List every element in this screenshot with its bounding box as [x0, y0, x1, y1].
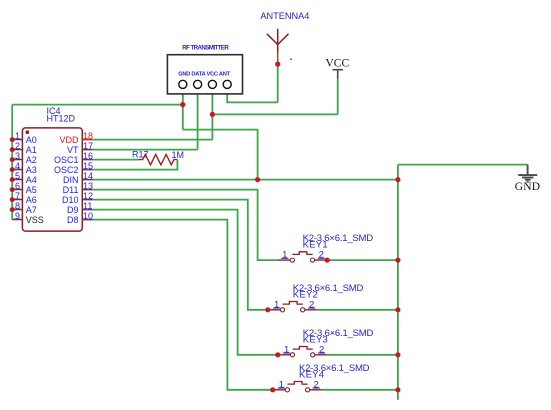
- IC left pin numbers: [15, 131, 20, 221]
- key KEY4: [270, 363, 370, 393]
- wire KEY1 out: [327, 259, 398, 261]
- IC4 HT12D chip box: [22, 128, 82, 231]
- svg-text:VDD: VDD: [59, 135, 79, 145]
- svg-text:3: 3: [15, 151, 20, 161]
- left pin number underlines: [13, 138, 20, 219]
- svg-text:11: 11: [83, 201, 92, 211]
- wire D9 row11 to KEY3: [92, 210, 277, 355]
- svg-text:OSC2: OSC2: [54, 165, 79, 175]
- junction DIN bend: [255, 177, 260, 182]
- key KEY2: [265, 283, 363, 313]
- junction antenna: [275, 62, 280, 67]
- svg-text:A5: A5: [26, 185, 37, 195]
- wire VCC pin drop: [211, 89, 213, 140]
- wire DIN row14 to ground rail: [92, 179, 398, 181]
- svg-text:9: 9: [15, 211, 20, 221]
- svg-text:7: 7: [15, 191, 20, 201]
- VCC symbol: [333, 70, 344, 80]
- wire KEY2 out: [318, 309, 398, 311]
- right pin number underlines tint: [83, 149, 92, 220]
- svg-text:1: 1: [279, 379, 284, 390]
- IC right pin names: [54, 135, 79, 225]
- wire KEY4 out: [322, 389, 398, 391]
- svg-text:VSS: VSS: [26, 215, 44, 225]
- svg-text:1M: 1M: [172, 150, 185, 160]
- wire OSC1 row16: [92, 159, 138, 161]
- RF pin circle DATA: [194, 80, 202, 88]
- RF pin circle VCC: [208, 80, 216, 88]
- svg-text:OSC1: OSC1: [54, 155, 79, 165]
- wire right ground rail: [397, 165, 399, 400]
- wire GND symbol branch: [398, 164, 528, 166]
- wire GND run to DIN: [183, 130, 258, 180]
- svg-text:RF TRANSMITTER: RF TRANSMITTER: [182, 45, 229, 52]
- junction dots left rail pins 1-8: [10, 137, 15, 212]
- svg-text:2: 2: [319, 250, 324, 261]
- wire OSC2 row15: [92, 160, 177, 170]
- IC left pin names A0-A7 VSS: [26, 135, 44, 225]
- junction rail DIN: [395, 177, 400, 182]
- svg-text:D9: D9: [67, 205, 79, 215]
- junction GND pin: [180, 102, 185, 107]
- wire ANT pin run: [227, 89, 278, 102]
- svg-text:HT12D: HT12D: [47, 113, 76, 123]
- svg-text:2: 2: [314, 379, 319, 390]
- svg-text:18: 18: [83, 131, 93, 141]
- svg-text:D10: D10: [62, 195, 79, 205]
- svg-text:D8: D8: [67, 215, 79, 225]
- junction rail KEY2: [395, 307, 400, 312]
- svg-text:2: 2: [15, 141, 20, 151]
- wire left ground rail horizontal: [12, 104, 183, 106]
- antenna stray dot: [290, 58, 292, 60]
- junction VCC branch: [210, 112, 215, 117]
- junction rail KEY4: [395, 387, 400, 392]
- svg-text:A7: A7: [26, 205, 37, 215]
- svg-text:KEY4: KEY4: [299, 369, 324, 380]
- svg-text:1: 1: [284, 344, 289, 355]
- svg-text:R17: R17: [132, 150, 149, 160]
- svg-text:13: 13: [83, 181, 93, 191]
- svg-text:17: 17: [83, 141, 93, 151]
- svg-text:6: 6: [15, 181, 20, 191]
- IC left pin stubs 1-9: [12, 140, 22, 220]
- svg-text:VT: VT: [67, 145, 79, 155]
- svg-text:10: 10: [83, 211, 93, 221]
- IC right pin numbers: [83, 131, 93, 221]
- RF pin circle GND: [179, 80, 187, 88]
- wire VDD row18: [92, 139, 212, 141]
- resistor R17: [138, 154, 177, 164]
- IC right pin stubs 18-10: [82, 140, 92, 220]
- svg-text:A0: A0: [26, 135, 37, 145]
- pin1 mark dot: [26, 130, 30, 134]
- svg-text:12: 12: [83, 191, 93, 201]
- svg-text:ANTENNA4: ANTENNA4: [260, 11, 309, 21]
- wire D8 row10 to KEY4: [92, 220, 272, 390]
- svg-text:2: 2: [319, 344, 324, 355]
- svg-text:4: 4: [15, 161, 20, 171]
- wire D11 row13 to KEY1: [92, 190, 277, 261]
- RF transmitter U box: [167, 55, 242, 94]
- RF pin circle ANT: [223, 80, 231, 88]
- svg-text:15: 15: [83, 161, 93, 171]
- wire antenna drop: [277, 62, 279, 102]
- svg-text:A2: A2: [26, 155, 37, 165]
- key KEY3: [275, 328, 373, 358]
- svg-text:1: 1: [274, 299, 279, 310]
- svg-text:2: 2: [309, 299, 314, 310]
- svg-text:GND: GND: [515, 181, 541, 193]
- svg-text:VCC: VCC: [326, 58, 350, 70]
- svg-text:5: 5: [15, 171, 20, 181]
- wire GND pin drop: [182, 89, 184, 130]
- key KEY1: [278, 233, 374, 263]
- svg-text:A1: A1: [26, 145, 37, 155]
- wire DATA pin drop: [197, 89, 199, 150]
- svg-text:14: 14: [83, 171, 93, 181]
- wire VT row17: [92, 149, 197, 151]
- svg-text:KEY1: KEY1: [303, 240, 328, 251]
- junction rail KEY1: [395, 258, 400, 263]
- svg-text:8: 8: [15, 201, 20, 211]
- svg-text:A4: A4: [26, 175, 37, 185]
- svg-text:DIN: DIN: [63, 175, 79, 185]
- wire KEY3 out: [328, 354, 398, 356]
- wire D10 row12 to KEY2: [92, 200, 267, 310]
- GND symbol: [518, 165, 537, 182]
- wire VCC branch: [212, 113, 337, 115]
- wire VCC symbol stem: [337, 79, 339, 114]
- antenna A4 symbol: [267, 29, 289, 53]
- junction rail KEY3: [395, 352, 400, 357]
- svg-text:1: 1: [282, 250, 287, 261]
- svg-text:A3: A3: [26, 165, 37, 175]
- svg-text:1: 1: [15, 131, 20, 141]
- svg-text:GND DATA VCC ANT: GND DATA VCC ANT: [178, 71, 230, 77]
- svg-text:D11: D11: [63, 185, 79, 195]
- svg-text:16: 16: [83, 151, 93, 161]
- svg-text:A6: A6: [26, 195, 37, 205]
- wire left ground rail vertical: [11, 105, 13, 220]
